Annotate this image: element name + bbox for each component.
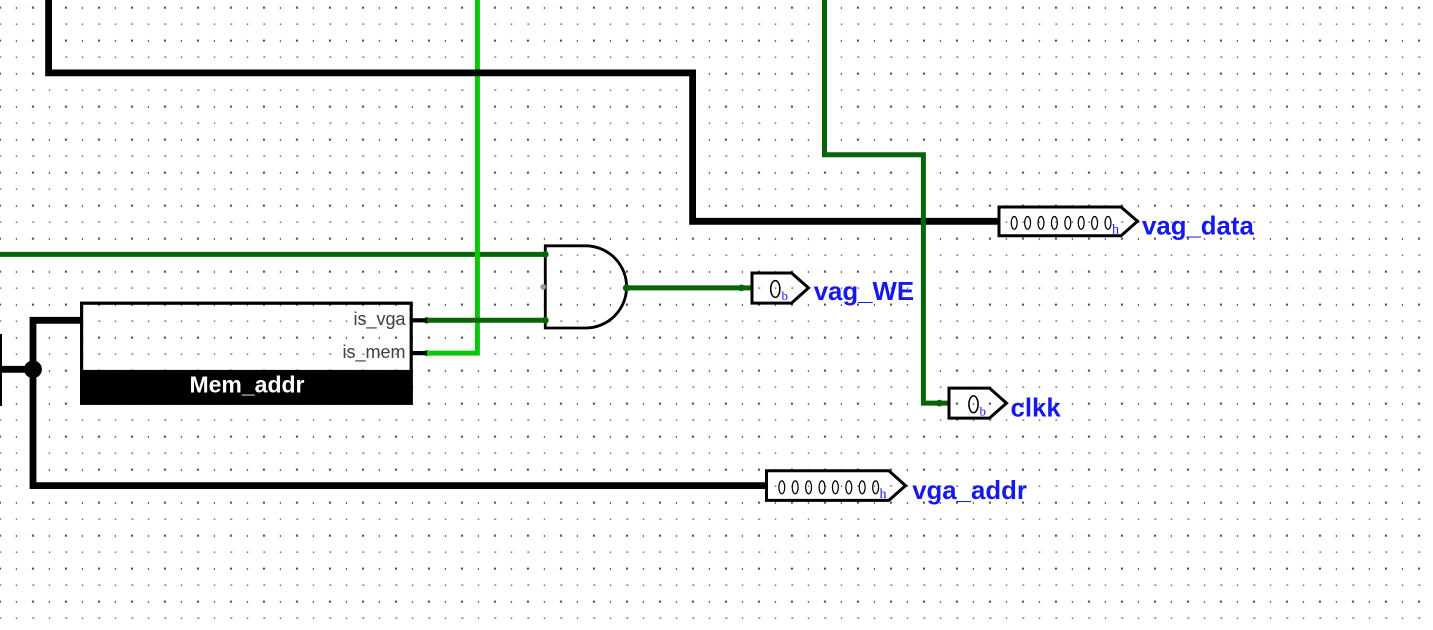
svg-text:b: b [980, 404, 987, 419]
svg-text:clkk: clkk [1011, 394, 1062, 422]
svg-text:is_vga: is_vga [353, 309, 406, 330]
svg-text:Mem_addr: Mem_addr [189, 372, 304, 398]
svg-text:is_mem: is_mem [342, 342, 405, 363]
svg-text:b: b [782, 288, 789, 303]
svg-text:h: h [880, 487, 887, 502]
svg-text:vag_WE: vag_WE [814, 278, 914, 306]
svg-text:vga_addr: vga_addr [912, 477, 1027, 505]
svg-text:h: h [1112, 223, 1119, 238]
svg-text:vag_data: vag_data [1142, 212, 1254, 240]
